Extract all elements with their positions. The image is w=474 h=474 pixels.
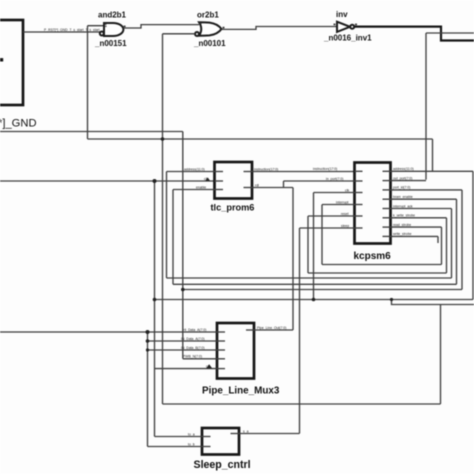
svg-text:to_b: to_b [188, 442, 195, 446]
svg-text:clk: clk [345, 188, 349, 192]
svg-text:port_id(7:0): port_id(7:0) [393, 186, 410, 190]
svg-text:Pipe_Line_Mux3: Pipe_Line_Mux3 [202, 386, 280, 397]
svg-text:kcpsm6: kcpsm6 [354, 251, 392, 262]
svg-text:Hi_Data_A(7:0): Hi_Data_A(7:0) [183, 328, 206, 332]
svg-text:write_strobe: write_strobe [393, 232, 412, 236]
svg-text:reset: reset [341, 212, 349, 216]
svg-text:*]_GND: *]_GND [0, 118, 37, 130]
svg-text:IN_Data_B(7:0): IN_Data_B(7:0) [181, 346, 205, 350]
svg-text:instruction(17:0): instruction(17:0) [254, 167, 278, 171]
svg-text:_n00151: _n00151 [94, 39, 127, 48]
svg-text:address(11:0): address(11:0) [393, 167, 414, 171]
svg-text:in_port(7:0): in_port(7:0) [326, 177, 343, 181]
svg-text:to_a: to_a [188, 432, 195, 436]
svg-text:Pipe_Line_Out(7:0): Pipe_Line_Out(7:0) [257, 326, 286, 330]
svg-text:Sleep_cntrl: Sleep_cntrl [194, 459, 251, 471]
svg-text:address(11:0): address(11:0) [184, 167, 205, 171]
svg-text:and2b1: and2b1 [98, 11, 127, 20]
svg-text:_n00101: _n00101 [193, 39, 226, 48]
svg-text:IN_Data_A(7:0): IN_Data_A(7:0) [181, 337, 205, 341]
svg-text:enable: enable [196, 185, 206, 189]
svg-text:instruction(17:0): instruction(17:0) [313, 167, 337, 171]
svg-text:bram_enable: bram_enable [393, 195, 413, 199]
svg-text:out_port(7:0): out_port(7:0) [393, 176, 412, 180]
svg-text:read_strobe: read_strobe [393, 223, 411, 227]
svg-text:interrupt_ack: interrupt_ack [393, 204, 413, 208]
svg-text:sleep: sleep [341, 224, 349, 228]
svg-text:k_write_strobe: k_write_strobe [393, 214, 415, 218]
svg-text:_n0016_inv1: _n0016_inv1 [323, 34, 372, 43]
svg-text:rdl: rdl [255, 183, 259, 187]
svg-text:PWB_N(7:0): PWB_N(7:0) [183, 355, 202, 359]
svg-text:s_a: s_a [243, 429, 249, 433]
svg-text:P_RST[*]_GND_T_s_start_T_s_sta: P_RST[*]_GND_T_s_start_T_s_start [44, 28, 100, 32]
svg-text:inv: inv [336, 10, 348, 19]
svg-text:tlc_prom6: tlc_prom6 [211, 203, 255, 213]
svg-text:interrupt: interrupt [336, 200, 348, 204]
svg-text:or2b1: or2b1 [197, 11, 219, 20]
